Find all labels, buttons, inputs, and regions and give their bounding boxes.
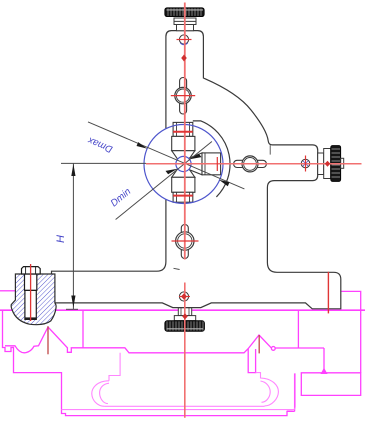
red diamond right knob — [325, 161, 331, 167]
left slot cap outer arc — [92, 381, 109, 407]
bottom right outline — [294, 373, 296, 411]
arm small screw (305.5,163.5) — [301, 159, 310, 168]
Dmax arrow upper-left — [137, 142, 148, 149]
casting top surface line — [0, 309, 365, 311]
Dmin arrow upper-right — [190, 154, 202, 159]
dimension texts — [55, 134, 133, 243]
red diamond bottom knob stem — [182, 313, 188, 319]
Dmin line — [116, 142, 212, 220]
bottom knurled knob — [165, 321, 205, 332]
slot bottom edge — [105, 405, 265, 407]
cross tick lower wing screw — [172, 240, 199, 242]
arm end flange — [324, 149, 331, 179]
mid ledge to right wall — [275, 347, 324, 349]
right slot cap inner arc — [261, 381, 271, 402]
bolt shank — [25, 274, 37, 290]
arm end stem — [318, 153, 324, 175]
small circle notch right of V2 — [271, 347, 275, 351]
spindle upper clamp block — [173, 122, 193, 136]
clamp bolt centerline — [30, 264, 32, 321]
left V-groove centerline — [47, 326, 49, 354]
small screw between column and base (184,296.5) — [179, 292, 188, 301]
bolt head — [22, 267, 41, 274]
casting left wall top (behind clamp) — [0, 290, 15, 292]
top knurled knob — [165, 8, 204, 17]
H extension line top — [61, 162, 146, 164]
left step down from ledge — [109, 353, 120, 381]
left slot cap inner arc — [100, 383, 109, 403]
red band spindle upper — [173, 131, 193, 133]
bracket hole centerline — [327, 272, 329, 314]
spindle lower clamp block — [173, 192, 193, 202]
inner C-frame opening arc around head — [193, 121, 230, 197]
bottom knob stem — [178, 308, 191, 316]
bottom knob flange — [174, 316, 195, 321]
spindle lower barrel — [172, 177, 195, 192]
H arrow top — [71, 164, 75, 176]
top small screw on body — [179, 35, 188, 45]
upper wing screw on column (183,95.6) — [175, 78, 191, 115]
spindle inner edge lines — [177, 122, 206, 202]
spindle lower cone — [172, 168, 195, 177]
inner vertical at x 83 — [82, 310, 84, 348]
red diamond upper column — [181, 55, 187, 62]
H dimension line — [72, 163, 74, 309]
cross tick arm small screw — [305, 156, 307, 172]
lower right box — [301, 373, 360, 396]
clamp block (hatched section) — [11, 274, 56, 325]
side barrel toward arm — [202, 153, 221, 175]
Dmax arrow lower-right — [219, 180, 230, 187]
vertical x324 down with triangle tip — [323, 348, 325, 369]
H bottom extension tick — [66, 308, 78, 310]
inner vertical at x 298.4 — [297, 310, 299, 348]
left V-groove prism — [5, 327, 271, 353]
red tick side barrel — [216, 157, 218, 171]
side cone toward arm — [189, 153, 202, 175]
Dmax line — [88, 122, 244, 189]
small blue circle at center — [176, 156, 191, 171]
cross tick upper wing screw — [171, 95, 195, 97]
arm left end edge — [269, 145, 271, 154]
right V-groove centerline — [258, 335, 260, 353]
cross tick base screw — [179, 296, 190, 298]
main vertical centerline upper — [184, 3, 186, 260]
knob stem — [174, 18, 196, 31]
red band spindle lower — [173, 195, 193, 197]
cross tick top screw — [177, 39, 192, 41]
long inner bottom line — [62, 409, 295, 411]
H arrow bottom — [71, 296, 75, 308]
big face disc (white fill hides column edge) — [144, 125, 223, 204]
main horizontal centerline — [146, 163, 362, 165]
red diamond base screw — [181, 293, 187, 299]
hanging notch below V2 — [248, 349, 255, 373]
arm wing screw (250,163.9) — [234, 156, 267, 172]
right knurled knob — [331, 146, 341, 182]
spindle upper cone — [172, 151, 195, 160]
svg-text:H: H — [55, 235, 67, 243]
light magenta inner details — [62, 353, 296, 410]
right slot cap outer arc — [256, 373, 279, 406]
casting left profile — [3, 310, 295, 415]
right inner outline — [287, 373, 295, 410]
right wall upper — [341, 291, 360, 372]
right knob end stub — [341, 158, 344, 168]
Dmin arrow lower-left — [166, 169, 178, 174]
main vertical centerline lower — [184, 283, 186, 418]
big blue face circle stroke on top of spindle — [144, 125, 223, 204]
foot line end tick — [174, 268, 180, 269]
lower wing screw on column (184.8,241) — [176, 225, 194, 259]
spindle upper barrel — [172, 136, 195, 150]
C-frame body with column, arm, bracket and base — [52, 31, 341, 310]
